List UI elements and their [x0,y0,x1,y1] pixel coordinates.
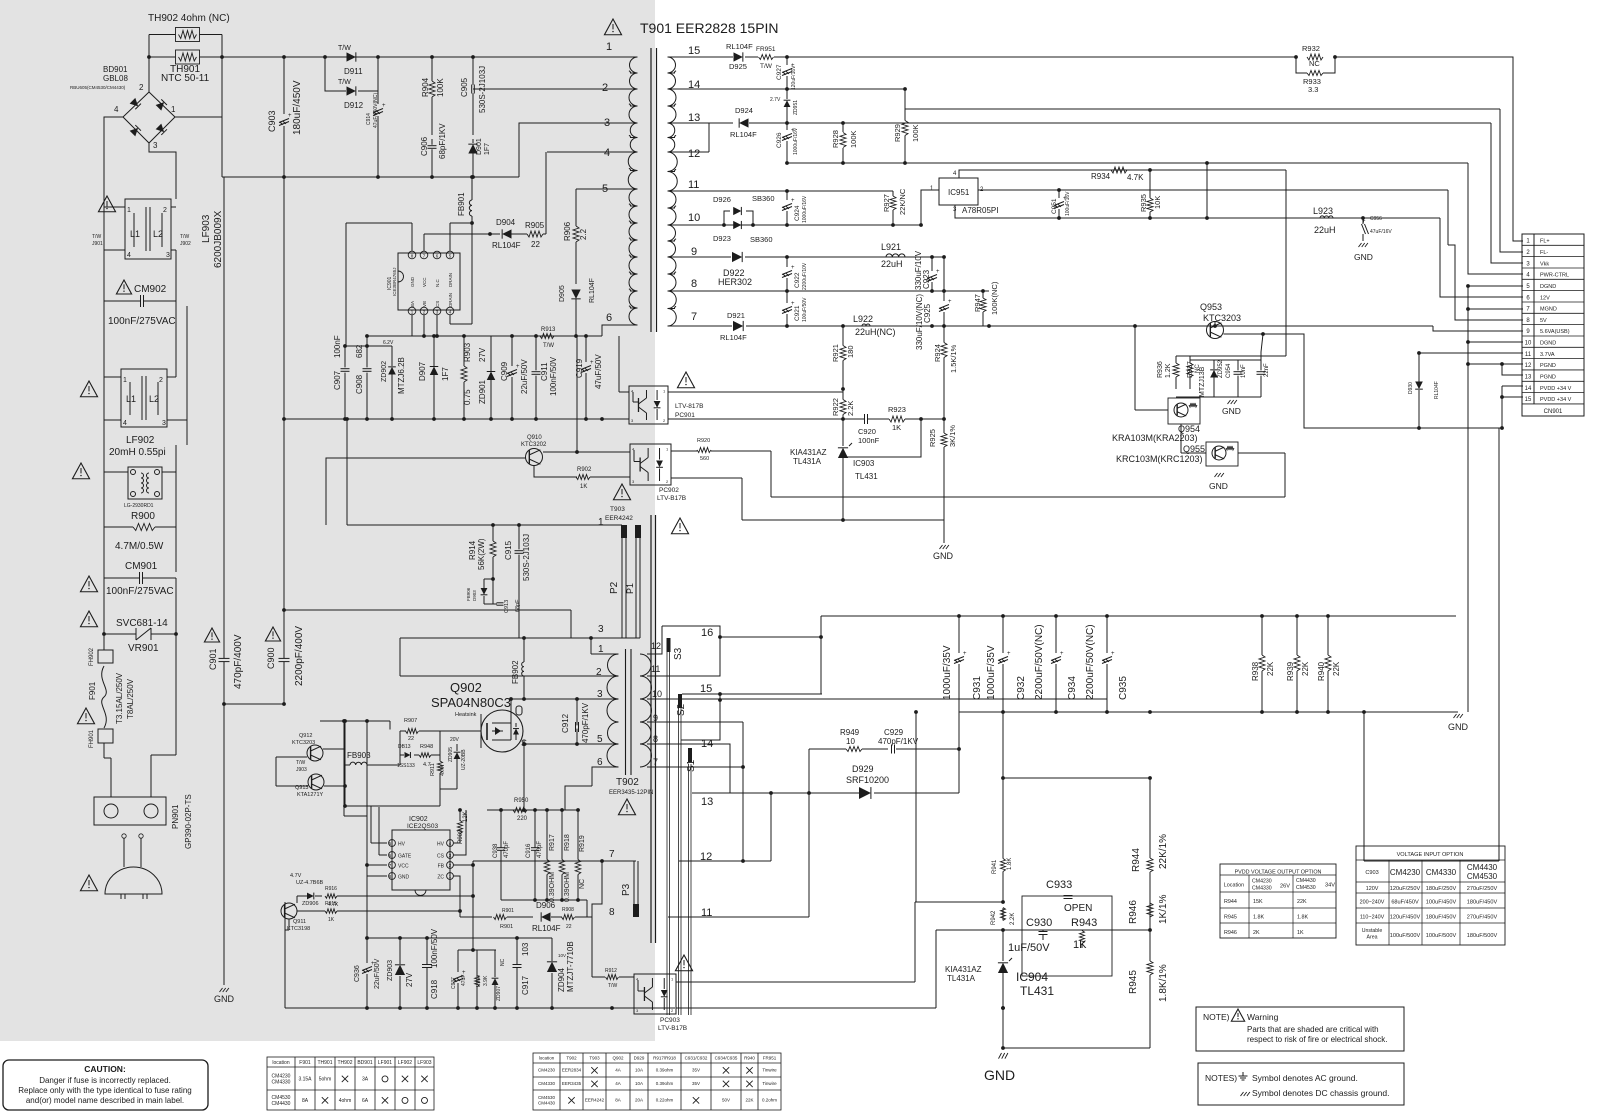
connector PN901 [94,797,166,825]
svg-text:VB: VB [422,301,427,307]
svg-text:NC: NC [579,879,586,889]
svg-text:GND: GND [398,875,410,881]
svg-text:22uH: 22uH [881,259,903,269]
svg-text:11: 11 [651,664,660,674]
svg-text:ZD952: ZD952 [1218,359,1224,378]
wire [501,899,587,901]
svg-text:P1: P1 [625,583,635,594]
wire [276,756,307,758]
svg-text:R914: R914 [468,540,477,560]
wire [283,177,285,419]
wire [543,451,630,453]
svg-text:3.15A: 3.15A [298,1076,312,1082]
wire [103,371,105,634]
svg-text:D921: D921 [727,311,745,320]
svg-text:LF903: LF903 [201,214,212,243]
svg-text:T903: T903 [610,506,625,513]
line filter LF903 [125,199,171,259]
wire to CN pin10 [1468,341,1523,343]
svg-text:location: location [272,1060,289,1066]
svg-text:10nF: 10nF [1241,364,1247,378]
svg-text:R901: R901 [500,924,513,930]
svg-text:120uF/250V: 120uF/250V [1390,886,1421,892]
svg-text:KTC3203: KTC3203 [1203,313,1241,323]
svg-text:220: 220 [517,816,528,822]
svg-text:FL+: FL+ [1540,239,1550,245]
svg-text:4: 4 [127,252,131,259]
svg-text:22uF/50V: 22uF/50V [374,958,381,989]
svg-text:RL104F: RL104F [532,924,561,933]
wire to pin6 [602,325,638,336]
wire to CN pin9 [1433,326,1523,331]
wire pin13 [668,122,734,124]
svg-text:100nF: 100nF [858,436,880,445]
wire [326,458,526,525]
wire [371,842,387,844]
svg-text:NC: NC [1309,59,1320,68]
svg-text:L922: L922 [853,314,873,324]
svg-text:CM4530: CM4530 [1467,872,1498,881]
wire [551,937,553,939]
svg-text:TL431: TL431 [1020,984,1054,998]
wire [671,477,742,479]
svg-text:C901: C901 [208,648,218,670]
svg-text:CM4330: CM4330 [538,1081,556,1086]
wire pin4 [547,151,638,153]
svg-text:100nF: 100nF [333,335,342,358]
warning [80,381,97,397]
svg-text:FL-: FL- [1540,250,1548,256]
svg-text:100nF/275VAC: 100nF/275VAC [108,316,176,327]
wire drain [510,699,512,712]
svg-text:15: 15 [688,45,700,57]
wire pin4 loop [959,170,1286,178]
svg-text:LF902: LF902 [126,435,155,446]
DC chassis ground [1215,473,1224,477]
transistor Q954 KRA103M [1168,398,1200,424]
warning [98,196,115,212]
svg-text:120V: 120V [1366,886,1379,892]
svg-text:R924: R924 [933,344,942,362]
svg-text:1.8K: 1.8K [1253,915,1264,921]
svg-text:1: 1 [598,517,604,528]
wire to CN pin2 [1500,109,1523,252]
wire rail 218 [955,217,1440,219]
wire R913 rail [367,335,602,337]
svg-text:R943: R943 [1071,917,1097,929]
svg-text:R944: R944 [1131,848,1142,872]
svg-text:GND: GND [1354,252,1373,262]
svg-text:GND: GND [214,994,235,1004]
svg-text:C903: C903 [267,110,277,132]
svg-text:2200pF/400V: 2200pF/400V [294,626,305,686]
svg-text:Vkk: Vkk [1540,261,1549,267]
svg-text:S3: S3 [673,647,684,660]
thermistor TH901 [176,50,200,64]
svg-text:C909: C909 [500,361,509,381]
IC951 regulator A78R05PI [939,178,978,205]
svg-text:68pF/1KV: 68pF/1KV [438,123,447,159]
svg-text:330uF/10V(NC): 330uF/10V(NC) [915,294,924,350]
wire to CN pin12 PGND [1468,363,1523,365]
svg-text:L923: L923 [1313,206,1333,216]
wire pin3b [511,698,619,700]
svg-text:1F7: 1F7 [441,367,450,381]
svg-text:C914: C914 [366,113,372,125]
svg-text:1000uF/16V: 1000uF/16V [793,127,799,155]
svg-text:FB903: FB903 [347,751,371,760]
svg-text:and(or) model name described i: and(or) model name described in main lab… [26,1096,184,1105]
svg-text:C931: C931 [972,676,983,700]
svg-text:GND: GND [1209,481,1228,491]
svg-text:PWR-CTRL: PWR-CTRL [1540,273,1569,279]
svg-text:R940: R940 [744,1056,755,1061]
svg-text:C934: C934 [1067,676,1078,700]
svg-text:0.75: 0.75 [463,389,472,405]
wire [1002,930,1004,955]
svg-text:100K: 100K [911,124,920,142]
capacitor CM902 [116,280,131,294]
svg-text:2: 2 [163,207,167,214]
svg-text:Danger if fuse is incorrectly: Danger if fuse is incorrectly replaced. [39,1076,171,1085]
svg-text:100nF/50V: 100nF/50V [430,928,439,968]
wire pin5 [576,188,638,190]
svg-text:2.2: 2.2 [579,228,588,240]
optocoupler PC903 [634,974,676,1014]
svg-text:T/W: T/W [760,63,773,70]
svg-text:ZD906: ZD906 [302,901,319,907]
svg-text:100nF/275VAC: 100nF/275VAC [106,586,174,597]
svg-text:BD901: BD901 [103,65,128,74]
svg-text:FB902: FB902 [511,660,520,684]
svg-text:SVC681-14: SVC681-14 [116,618,168,629]
warning [604,19,621,35]
wire [820,616,822,694]
svg-text:180uF/450V: 180uF/450V [1467,900,1498,906]
svg-text:1K: 1K [1073,939,1087,951]
svg-text:C922: C922 [794,272,801,288]
svg-text:Replace only with the type ide: Replace only with the type identical to … [18,1086,191,1095]
svg-text:1: 1 [127,207,131,214]
model location table [533,1053,781,1110]
wire [843,419,921,457]
wire [1468,285,1523,287]
capacitor C933 (OPEN) [1022,896,1112,976]
svg-text:12: 12 [651,641,661,651]
svg-text:180uF/450V: 180uF/450V [292,80,303,135]
svg-text:R920: R920 [697,438,710,444]
wire [389,721,391,730]
svg-text:1F7: 1F7 [484,143,491,155]
wire [284,902,286,1008]
svg-text:+: + [1007,651,1011,657]
svg-text:+: + [791,265,795,271]
wire [149,56,176,58]
svg-text:R944: R944 [1224,899,1237,905]
warning [204,628,219,642]
svg-text:KTC3198: KTC3198 [287,926,310,932]
wire pin1 [921,190,939,225]
wire pin3 [519,123,638,177]
svg-text:11: 11 [688,179,699,191]
wire rail 938 [367,937,552,939]
DC chassis ground [940,545,949,549]
svg-text:R904: R904 [421,77,430,97]
caution box [3,1060,208,1110]
svg-text:RL104F: RL104F [730,130,757,139]
svg-text:2.2K: 2.2K [1010,913,1016,925]
svg-text:2200uF/50V(NC): 2200uF/50V(NC) [1034,624,1045,700]
wire drain loop [471,223,473,324]
svg-text:KTA1271Y: KTA1271Y [297,792,324,798]
svg-text:ZC: ZC [437,875,444,881]
svg-text:22: 22 [408,736,414,742]
svg-text:470pF/1KV: 470pF/1KV [878,737,919,746]
svg-text:FH902: FH902 [89,647,95,666]
svg-text:120uF/16V: 120uF/16V [791,65,797,90]
wire [175,634,177,755]
wire [103,425,105,467]
svg-text:TH902: TH902 [337,1060,352,1066]
svg-text:ZD901: ZD901 [478,379,487,404]
svg-text:R928: R928 [831,130,840,148]
svg-text:100uF/500V: 100uF/500V [1390,933,1421,939]
svg-text:22K: 22K [1266,661,1275,676]
svg-text:10: 10 [652,689,662,699]
svg-text:1K: 1K [580,484,587,490]
svg-text:D907: D907 [418,361,427,381]
wire pin2 [473,88,638,90]
svg-text:C931/C932: C931/C932 [685,1056,708,1061]
wire rail 163 [787,162,1468,164]
svg-text:MTZJ13B: MTZJ13B [1199,366,1206,397]
svg-text:R915: R915 [325,901,337,907]
svg-text:+: + [791,198,795,204]
wire gate [440,730,481,732]
svg-text:C921: C921 [794,305,801,321]
svg-text:S1: S1 [686,759,697,772]
svg-text:Symbol denotes AC ground.: Symbol denotes AC ground. [1252,1073,1358,1083]
svg-text:KIA431AZ: KIA431AZ [790,448,827,457]
svg-text:R939: R939 [1286,661,1295,681]
wire [103,743,105,758]
svg-text:2200uF/50V(NC): 2200uF/50V(NC) [1085,624,1096,700]
wire rail 810 [487,809,578,811]
svg-text:470pF/400V: 470pF/400V [233,634,244,689]
wire to CN pin3 [1491,123,1523,263]
svg-text:T/W: T/W [338,45,351,52]
wire [325,57,346,91]
warning [613,484,630,500]
wire [460,916,492,918]
svg-text:GND: GND [1222,406,1241,416]
thermistor TH902 [176,28,200,42]
svg-text:CS: CS [437,854,445,860]
IC IC902 ICE2QS03 [392,830,450,890]
svg-text:P3: P3 [621,883,632,896]
svg-text:MGND: MGND [1540,307,1557,313]
wire sub-rail 950 [458,949,496,951]
svg-text:4A: 4A [615,1068,621,1073]
svg-text:NC: NC [500,958,506,966]
transformer T903 core [650,515,652,943]
svg-text:GND: GND [1448,722,1469,732]
svg-text:2.7V: 2.7V [770,97,781,103]
svg-text:10: 10 [846,737,855,746]
svg-text:7: 7 [609,849,615,860]
transformer T902 core [625,649,627,775]
svg-text:LF901: LF901 [378,1060,392,1066]
svg-text:UZ-20BB: UZ-20BB [461,749,467,770]
svg-text:20mH 0.55pi: 20mH 0.55pi [109,447,166,458]
svg-text:KIA431AZ: KIA431AZ [945,965,982,974]
svg-text:R932: R932 [1302,44,1320,53]
svg-text:L1: L1 [130,229,140,239]
svg-text:22uH: 22uH [1314,225,1336,235]
svg-text:GND: GND [984,1067,1015,1083]
diode D901 [468,144,477,153]
wire FB drop [472,861,474,950]
svg-text:1.8K: 1.8K [1297,915,1308,921]
resistor R934 [1111,167,1127,173]
wire output rail 616 [821,615,1456,617]
wire pin3 [955,205,962,218]
wire pins 1-3 [411,315,413,336]
svg-text:ICE3BR4765J: ICE3BR4765J [392,267,397,296]
svg-text:CM4430: CM4430 [538,1100,556,1105]
svg-text:FR951: FR951 [763,1056,777,1061]
svg-text:D930: D930 [1408,382,1414,394]
svg-text:Unstable: Unstable [1362,928,1383,934]
svg-text:1K: 1K [892,423,901,432]
svg-text:4: 4 [114,105,119,114]
svg-text:D906: D906 [536,901,556,910]
svg-text:2: 2 [139,83,144,92]
svg-text:20V: 20V [450,737,460,743]
svg-text:3: 3 [598,624,604,635]
svg-text:IC904: IC904 [1016,970,1048,984]
transformer T902 primary winding [607,654,619,767]
svg-text:103: 103 [521,942,530,956]
svg-text:T/W: T/W [92,234,101,240]
svg-text:location: location [539,1056,555,1061]
svg-text:T/W: T/W [543,343,554,349]
wire pin2 5V [978,189,1448,191]
svg-text:IC902: IC902 [409,816,428,823]
svg-text:R935: R935 [1139,194,1148,212]
wire pin6 [592,767,619,786]
svg-text:120uF/450V: 120uF/450V [1390,915,1421,921]
wire [175,296,177,371]
svg-text:C920: C920 [858,427,876,436]
winding P2 [621,525,623,638]
svg-text:180uF/250V: 180uF/250V [1426,886,1457,892]
svg-text:1000uF/16V: 1000uF/16V [802,195,808,223]
svg-text:Tinwire: Tinwire [762,1081,777,1086]
svg-text:T903: T903 [589,1056,600,1061]
svg-text:D912: D912 [344,101,364,110]
svg-text:Symbol denotes DC chassis grou: Symbol denotes DC chassis ground. [1252,1088,1390,1098]
svg-text:22: 22 [566,924,572,930]
svg-text:SPA04N80C3: SPA04N80C3 [431,695,511,710]
wire VCC pin7 [423,234,425,251]
wire pin8 rail [668,290,990,292]
svg-text:1000uF/35V: 1000uF/35V [942,645,953,700]
svg-text:R918: R918 [564,834,571,851]
svg-text:15: 15 [1525,397,1532,403]
svg-text:22K: 22K [1301,661,1310,676]
svg-text:Parts that are shaded are crit: Parts that are shaded are critical with [1247,1025,1379,1034]
warning [80,611,97,627]
note warning box [1196,1007,1404,1051]
wire [1206,163,1208,218]
svg-text:R905: R905 [525,221,545,230]
svg-text:R936: R936 [1157,361,1164,378]
winding P3 [633,861,635,917]
svg-text:CM4530: CM4530 [1296,885,1316,891]
svg-text:3.7VA: 3.7VA [1540,352,1555,358]
svg-text:CM4430: CM4430 [272,1101,291,1107]
svg-text:PC902: PC902 [659,487,679,494]
svg-text:13: 13 [688,112,700,124]
svg-text:RL104F: RL104F [1434,381,1440,399]
wire [104,117,123,371]
svg-text:5: 5 [597,734,603,745]
svg-text:22K: 22K [745,1098,753,1103]
line filter LF902 [121,369,167,427]
svg-text:6A: 6A [362,1098,369,1104]
svg-text:R941: R941 [992,859,998,874]
svg-text:100uF/50V: 100uF/50V [802,297,808,322]
svg-text:3K/1%: 3K/1% [948,425,957,447]
svg-text:22K/NC: 22K/NC [898,188,907,215]
svg-text:RL104F: RL104F [589,278,596,303]
svg-text:68pF: 68pF [515,599,521,612]
svg-text:CM4430: CM4430 [1296,878,1316,884]
svg-text:+: + [963,651,967,657]
svg-text:ZD904: ZD904 [557,967,566,992]
svg-text:47uF: 47uF [461,975,467,986]
svg-text:TL431: TL431 [855,472,878,481]
svg-text:C919: C919 [575,358,584,378]
capacitor C955 [1257,371,1266,373]
svg-text:1.5K/1%: 1.5K/1% [949,344,958,373]
svg-text:ICE2QS03: ICE2QS03 [407,823,438,830]
wire [399,638,401,676]
wire PC901 out [668,391,843,393]
svg-text:35V: 35V [692,1068,700,1073]
svg-text:MTZJ6.2B: MTZJ6.2B [397,357,406,394]
svg-text:100K: 100K [436,78,445,97]
svg-text:R923: R923 [888,405,906,414]
svg-text:ZD903: ZD903 [387,960,394,981]
svg-text:0.39ohm: 0.39ohm [656,1081,674,1086]
svg-text:R907: R907 [404,718,417,724]
svg-text:0.2ohm: 0.2ohm [762,1098,777,1103]
svg-text:47uF/50V: 47uF/50V [594,354,603,389]
svg-text:R917/R918: R917/R918 [653,1056,676,1061]
wire output rail 712 [959,711,1455,713]
svg-text:560: 560 [700,456,709,462]
svg-text:LF902: LF902 [398,1060,412,1066]
svg-text:PN901: PN901 [171,804,180,829]
svg-text:4.7K: 4.7K [440,764,446,776]
svg-text:14: 14 [1525,386,1532,392]
wire to CN pin14 [1502,385,1523,387]
svg-text:470pF: 470pF [537,841,543,858]
wire [1190,359,1261,361]
diode D921 [733,321,743,331]
